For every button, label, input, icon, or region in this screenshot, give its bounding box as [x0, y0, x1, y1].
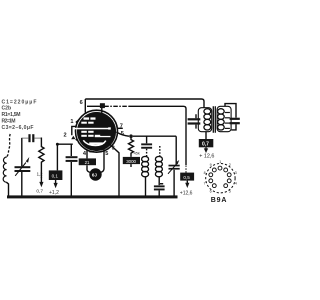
coil L1: [3, 157, 7, 182]
ground bus: [7, 195, 178, 198]
svg-text:5: 5: [105, 151, 108, 157]
svg-text:+ 12,6: + 12,6: [199, 153, 214, 159]
svg-text:0,7: 0,7: [202, 141, 209, 147]
svg-text:9: 9: [210, 163, 212, 167]
svg-text:B9A: B9A: [211, 197, 227, 204]
wire screen vertical: [101, 104, 103, 114]
wire C2 to R1: [34, 137, 41, 139]
transformer T1 primary shield: [198, 108, 211, 132]
pin7 stub: [117, 127, 123, 129]
svg-text:45k: 45k: [134, 151, 140, 156]
svg-text:0,7: 0,7: [36, 189, 43, 195]
wire pin3: [107, 142, 119, 196]
antenna lead-in: [7, 134, 10, 157]
wire grid to tube: [57, 144, 72, 170]
svg-text:+12,6: +12,6: [180, 191, 193, 197]
transformer T1 secondary winding: [218, 109, 225, 130]
wire anode line A: [85, 99, 204, 108]
svg-text:R1=1,5M: R1=1,5M: [2, 112, 21, 118]
capacitor C8: [158, 177, 160, 185]
svg-text:2: 2: [229, 163, 231, 167]
svg-text:R2=1M: R2=1M: [2, 118, 16, 124]
svg-text:7: 7: [204, 181, 206, 185]
wire screen line B: [87, 105, 100, 107]
variable capacitor C9: [169, 165, 180, 170]
svg-text:6: 6: [80, 100, 83, 106]
wire C4 to bus: [70, 144, 72, 196]
resistor R2: [129, 138, 134, 157]
transformer T1 secondary laminations: [225, 112, 230, 129]
resistor R1: [39, 138, 44, 178]
transformer T1 core: [213, 106, 215, 132]
wire L1 bottom to bus: [6, 182, 8, 196]
svg-text:C3=2–6,0μF: C3=2–6,0μF: [2, 125, 34, 131]
svg-text:1: 1: [70, 119, 73, 125]
capacitor C4: [66, 156, 78, 162]
svg-text:5: 5: [229, 190, 231, 194]
svg-text:0,5: 0,5: [183, 175, 190, 180]
wire C5 to jack: [87, 165, 90, 172]
tube V1 envelope: [76, 110, 118, 152]
pin1 stub: [76, 119, 79, 122]
legend parts list: [2, 99, 37, 131]
capacitor C5 block: [79, 158, 96, 165]
svg-text:3: 3: [235, 171, 237, 175]
capacitor C2 (grid): [28, 134, 34, 142]
transformer T1 secondary shield: [217, 106, 231, 131]
wire pin4: [86, 150, 88, 159]
supply arrow R1: [39, 182, 43, 187]
variable capacitor C1: [15, 166, 31, 172]
svg-text:8: 8: [204, 171, 206, 175]
svg-text:0,1: 0,1: [52, 174, 59, 179]
capacitor C10 block: [180, 173, 194, 181]
coil L3: [159, 146, 161, 156]
capacitor C7 block: [205, 132, 207, 139]
resistor R2 value box: [123, 157, 140, 164]
svg-text:C1=220μμF: C1=220μμF: [2, 99, 37, 105]
supply arrow C7: [205, 147, 207, 149]
svg-text:6J: 6J: [92, 172, 98, 177]
wire L2 to bus: [145, 177, 147, 196]
wire anode to varcap: [133, 136, 176, 164]
svg-text:4: 4: [235, 181, 237, 185]
capacitor C6: [146, 136, 148, 143]
capacitor C3 block: [49, 170, 63, 180]
svg-text:21: 21: [85, 160, 90, 165]
wire tank top: [22, 137, 29, 139]
svg-text:2: 2: [64, 133, 67, 139]
svg-text:3000: 3000: [126, 159, 136, 164]
junction blob: [100, 103, 105, 108]
capacitor C11 (primary): [188, 118, 201, 124]
capacitor C12 (secondary): [225, 104, 236, 118]
earphone jack J1: [89, 168, 101, 180]
socket label B9A: [211, 197, 227, 204]
wire pin5 bottom: [101, 149, 104, 172]
transformer T1 primary winding: [204, 109, 211, 130]
tube socket B9A: [206, 164, 235, 193]
svg-text:+1,2: +1,2: [49, 190, 59, 196]
svg-text:1: 1: [219, 160, 221, 164]
wire tank vertical: [21, 138, 23, 196]
tube pin digits: [64, 100, 124, 157]
node junction: [129, 134, 133, 138]
coil L2: [142, 156, 149, 176]
node grid junction: [56, 143, 59, 146]
tube V1 electrodes (white): [74, 117, 110, 144]
supply arrow C3: [55, 180, 57, 183]
heater tie: [89, 151, 94, 153]
wire pin5 to junction: [116, 132, 129, 136]
resistor R1 value label: [37, 172, 44, 177]
grid lead pin 2: [72, 126, 77, 135]
svg-text:6: 6: [210, 190, 212, 194]
supply arrow C10: [186, 181, 188, 183]
wire pin6 up: [84, 99, 86, 113]
svg-text:1,2: 1,2: [37, 172, 44, 177]
svg-text:C2b: C2b: [2, 106, 12, 112]
